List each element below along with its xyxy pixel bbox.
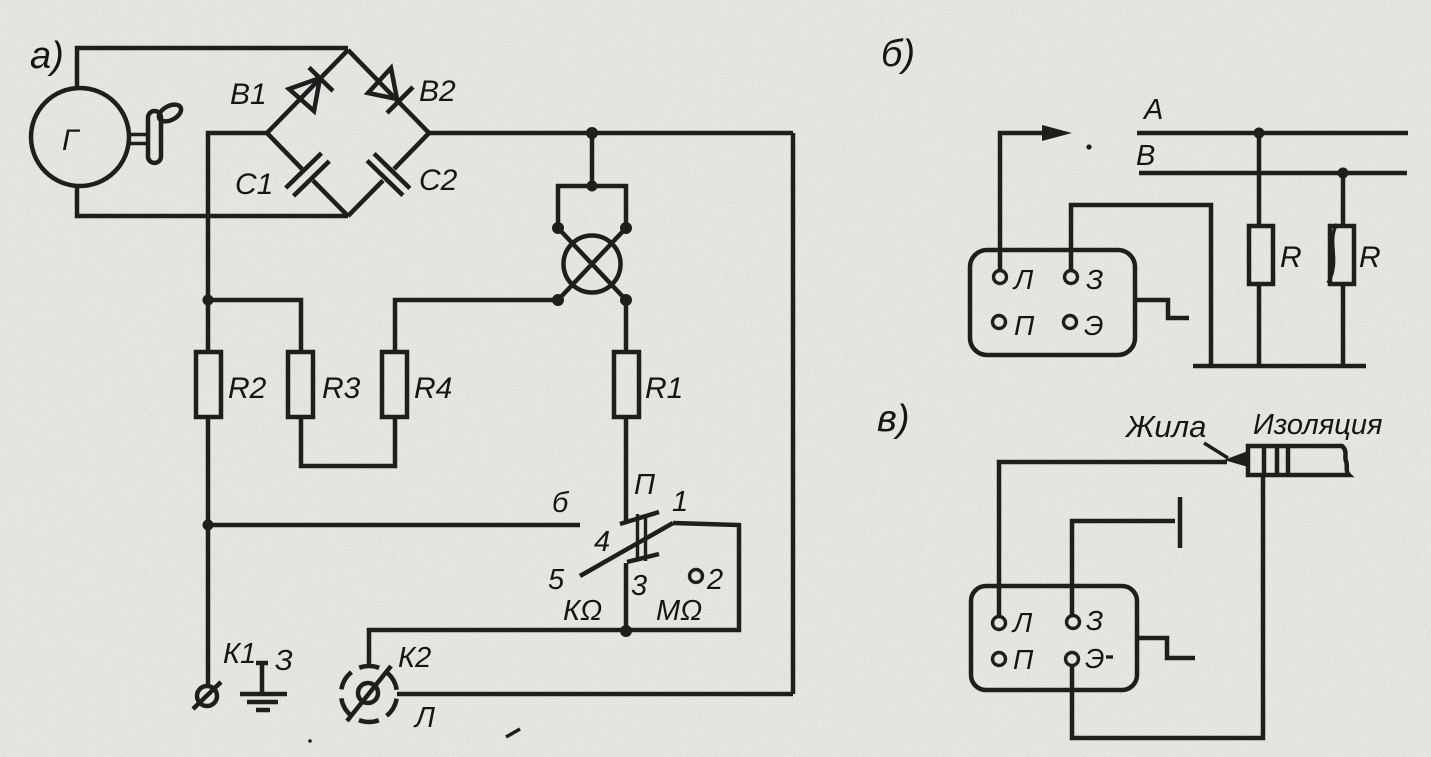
svg-text:R4: R4 bbox=[414, 372, 452, 405]
svg-text:К1: К1 bbox=[223, 638, 256, 670]
svg-text:R: R bbox=[1280, 241, 1302, 274]
wire lamp lower-right to R1 bbox=[624, 300, 629, 352]
wire R left to earth bar bbox=[1257, 284, 1262, 366]
line B bbox=[1139, 171, 1407, 176]
svg-text:П: П bbox=[1014, 310, 1035, 341]
lamp diagonal 2 bbox=[558, 228, 626, 300]
svg-text:В1: В1 bbox=[230, 78, 267, 111]
megohmmeter box b bbox=[970, 250, 1135, 355]
svg-text:4: 4 bbox=[594, 526, 610, 558]
node junction at 3 bottom bbox=[620, 625, 632, 637]
svg-text:Изоляция: Изоляция bbox=[1253, 409, 1382, 441]
svg-text:С1: С1 bbox=[235, 168, 273, 201]
node dot on bracket bbox=[587, 181, 598, 192]
earth bar bbox=[1193, 364, 1366, 369]
wire junction to R3 top bbox=[208, 300, 301, 352]
dash after E bbox=[1106, 655, 1113, 658]
ground bars bbox=[240, 692, 287, 697]
svg-text:З: З bbox=[1086, 264, 1103, 295]
svg-text:б: б bbox=[552, 487, 570, 519]
ink speck bbox=[308, 739, 312, 743]
capacitor C2 plates bbox=[367, 154, 410, 196]
wire R right to earth bar bbox=[1341, 284, 1346, 366]
terminal Z circle v bbox=[1067, 616, 1080, 629]
svg-text:С2: С2 bbox=[419, 164, 458, 197]
svg-text:R: R bbox=[1359, 241, 1381, 274]
bridge side L-T (wire) bbox=[267, 50, 348, 133]
generator crank arm bbox=[148, 111, 161, 163]
wire bridge left vertex to left rail down to R2 bbox=[208, 133, 267, 352]
terminal K1 circle bbox=[197, 686, 217, 706]
wire E down right up to insulation bbox=[1072, 475, 1263, 738]
wire generator bottom to bridge bottom bbox=[77, 186, 348, 216]
svg-text:П: П bbox=[1013, 644, 1034, 675]
lamp terminal dots bbox=[552, 222, 564, 234]
resistor R left bbox=[1249, 226, 1273, 284]
terminal L circle bbox=[994, 271, 1007, 284]
ink speck bbox=[506, 729, 520, 737]
svg-text:б): б) bbox=[881, 33, 915, 75]
wire R4 top to lamp lower-left terminal bbox=[395, 300, 556, 352]
resistor R right bbox=[1330, 226, 1354, 284]
wire A to resistor R left bbox=[1257, 133, 1262, 226]
svg-text:Э: Э bbox=[1084, 310, 1103, 341]
svg-text:R1: R1 bbox=[645, 372, 683, 405]
terminal L circle v bbox=[993, 617, 1006, 630]
long wire junction to switch contact 6 bbox=[208, 523, 580, 528]
svg-text:З: З bbox=[1086, 605, 1103, 636]
svg-text:5: 5 bbox=[548, 564, 565, 596]
node on line A bbox=[1254, 128, 1265, 139]
wire core to L terminal bbox=[999, 462, 1227, 616]
svg-text:1: 1 bbox=[672, 486, 688, 518]
bridge side L-B with C1 gap bbox=[267, 133, 348, 216]
line A bbox=[1137, 131, 1408, 136]
range box with bottom wire to K2 lamp bbox=[369, 523, 739, 665]
wire bridge right vertex to right rail bbox=[429, 131, 793, 136]
svg-text:В2: В2 bbox=[419, 75, 456, 108]
svg-text:а): а) bbox=[30, 35, 64, 77]
svg-text:Г: Г bbox=[62, 124, 81, 157]
bridge side T-R (wire) bbox=[348, 50, 429, 133]
wire contact 3 down to bottom bbox=[624, 563, 629, 630]
diode B2 bbox=[368, 68, 413, 113]
ink speck bbox=[1086, 144, 1091, 149]
capacitor C1 plates bbox=[286, 153, 330, 196]
hook stub from box v bbox=[1137, 638, 1195, 658]
arrow head bbox=[1042, 125, 1072, 141]
generator G circle bbox=[31, 88, 129, 186]
cable bands bbox=[1264, 446, 1288, 475]
resistor R4 bbox=[382, 352, 407, 417]
generator crank knob bbox=[156, 101, 184, 125]
wire B to resistor R right bbox=[1341, 173, 1346, 226]
node junction on left rail bbox=[203, 295, 214, 306]
lamp diagonal 1 bbox=[558, 228, 626, 300]
svg-text:К2: К2 bbox=[398, 642, 431, 674]
contact 2 circle bbox=[690, 570, 703, 583]
wire Z terminal to probe bbox=[1072, 521, 1175, 616]
wire R1 bottom to switch contact P bbox=[624, 417, 629, 523]
svg-text:А: А bbox=[1142, 94, 1163, 126]
svg-text:2: 2 bbox=[706, 564, 723, 596]
lamp top bracket bbox=[558, 186, 626, 228]
bridge side B-R with C2 gap bbox=[348, 133, 429, 216]
svg-text:Э: Э bbox=[1085, 643, 1104, 674]
svg-text:Л: Л bbox=[413, 702, 435, 734]
terminal P circle v bbox=[993, 653, 1006, 666]
wire Z up over to earth bbox=[1071, 205, 1211, 366]
lamp K2 inner circle bbox=[358, 683, 378, 703]
left rail junction to K1 bbox=[203, 520, 214, 531]
terminal E circle bbox=[1064, 316, 1077, 329]
wire L up with arrow bbox=[1000, 133, 1048, 270]
switch arm 5-4 bbox=[580, 523, 673, 576]
lamp crossed circle bbox=[564, 236, 621, 293]
node junction above lamp bbox=[586, 127, 598, 139]
svg-text:в): в) bbox=[877, 398, 910, 440]
ground symbol stem bbox=[256, 663, 268, 694]
leader line bbox=[1204, 443, 1228, 458]
breakdown mark on R right bbox=[1328, 224, 1337, 283]
resistor R1 bbox=[614, 352, 639, 417]
svg-text:3: 3 bbox=[631, 570, 647, 602]
right rail vertical bbox=[791, 133, 796, 694]
svg-text:Жила: Жила bbox=[1124, 409, 1206, 444]
wire R3 bottom to R4 bottom bbox=[301, 417, 395, 466]
wire generator top to bridge top bbox=[77, 48, 348, 88]
switch coupling double bar bbox=[638, 514, 646, 561]
hook stub from box b bbox=[1135, 300, 1189, 318]
terminal P circle bbox=[993, 316, 1006, 329]
svg-text:П: П bbox=[634, 469, 656, 501]
probe bar bbox=[1178, 497, 1183, 548]
svg-text:Л: Л bbox=[1011, 607, 1033, 638]
svg-text:КΩ: КΩ bbox=[563, 595, 602, 627]
lamp K2 dashed circle bbox=[341, 666, 397, 722]
cable core conductor bbox=[1224, 451, 1248, 467]
terminal K1 slash bbox=[193, 682, 221, 709]
svg-text:В: В bbox=[1136, 140, 1155, 172]
switch contact line P-1 bbox=[620, 512, 659, 524]
resistor R3 bbox=[288, 352, 313, 417]
diode B1 bbox=[289, 68, 333, 112]
generator crank shaft double line bbox=[130, 135, 148, 144]
svg-text:МΩ: МΩ bbox=[656, 595, 702, 627]
terminal E circle v bbox=[1066, 653, 1079, 666]
wire junction down to lamp bracket bbox=[590, 133, 595, 186]
lamp K2 inner slash bbox=[347, 666, 391, 721]
svg-text:R2: R2 bbox=[228, 372, 267, 405]
node on line B bbox=[1338, 168, 1349, 179]
svg-text:З: З bbox=[275, 645, 293, 677]
resistor R2 bbox=[196, 352, 221, 417]
terminal Z circle bbox=[1065, 271, 1078, 284]
switch contact line at 3 bbox=[627, 554, 659, 562]
cable body bbox=[1248, 446, 1349, 475]
svg-text:Л: Л bbox=[1012, 264, 1034, 295]
bottom rail from K2 to right rail bbox=[397, 692, 793, 697]
svg-text:R3: R3 bbox=[322, 372, 361, 405]
megohmmeter box v bbox=[971, 586, 1137, 690]
